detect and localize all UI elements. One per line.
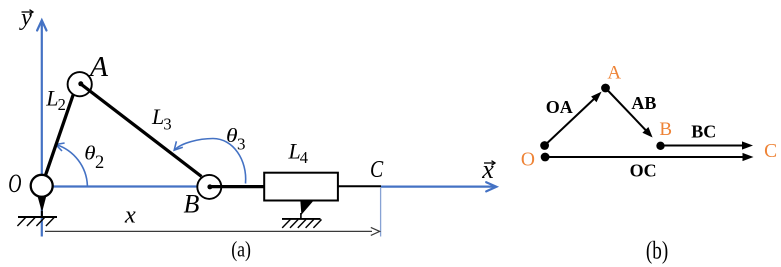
svg-text:4: 4 [300,148,308,167]
svg-text:2: 2 [58,95,66,114]
svg-text:AB: AB [631,93,656,113]
vector OA [545,92,602,146]
label L2 [45,85,66,114]
label L4 [288,139,308,168]
pin dot A [78,81,83,86]
svg-text:B: B [659,119,672,140]
svg-text:O: O [8,168,21,198]
joint circle O [31,175,53,197]
label y-vector [19,5,33,31]
svg-text:3: 3 [237,135,246,154]
svg-text:L: L [151,104,164,129]
vector AB [606,88,653,138]
ground pivot at O [17,195,57,226]
angle arc theta2 [56,143,88,186]
vector OC [545,153,753,161]
link B to slider [210,185,266,188]
vector BC [661,141,754,149]
svg-text:B: B [184,190,200,219]
svg-text:y: y [19,5,32,31]
svg-text:(b): (b) [646,238,668,265]
svg-text:OA: OA [546,97,573,117]
svg-text:(a): (a) [231,237,251,262]
slider block L4 [264,173,338,201]
label theta2 [84,143,104,173]
svg-text:3: 3 [163,115,171,134]
svg-text:A: A [88,52,109,83]
y-axis [37,20,46,236]
svg-text:x: x [481,155,494,184]
link L3 [81,84,202,177]
angle arc theta3 [174,139,245,184]
joint circle A [68,72,92,96]
svg-text:A: A [607,63,621,84]
svg-text:O: O [521,149,535,170]
rod to C [338,185,381,187]
label x-vector [481,155,495,184]
svg-text:C: C [370,156,384,183]
joint circle B [197,175,221,199]
svg-text:2: 2 [95,153,104,173]
svg-text:C: C [764,141,777,162]
node dot B [656,142,664,150]
svg-text:OC: OC [630,161,657,181]
link L2 [42,85,77,187]
label theta3 [226,126,246,154]
svg-text:BC: BC [691,122,716,142]
svg-text:L: L [45,85,58,110]
node dot A [601,84,610,93]
x-axis (left of C) [42,185,339,187]
label L3 [151,104,172,133]
node dot O upper [540,141,549,150]
extension line at C [380,188,382,237]
x-axis (right of C) [381,182,497,191]
svg-text:x: x [124,202,136,229]
ground pivot under slider [282,200,322,228]
dimension line x [45,227,380,235]
pin dot B [207,184,212,189]
node dot O lower [541,153,550,162]
